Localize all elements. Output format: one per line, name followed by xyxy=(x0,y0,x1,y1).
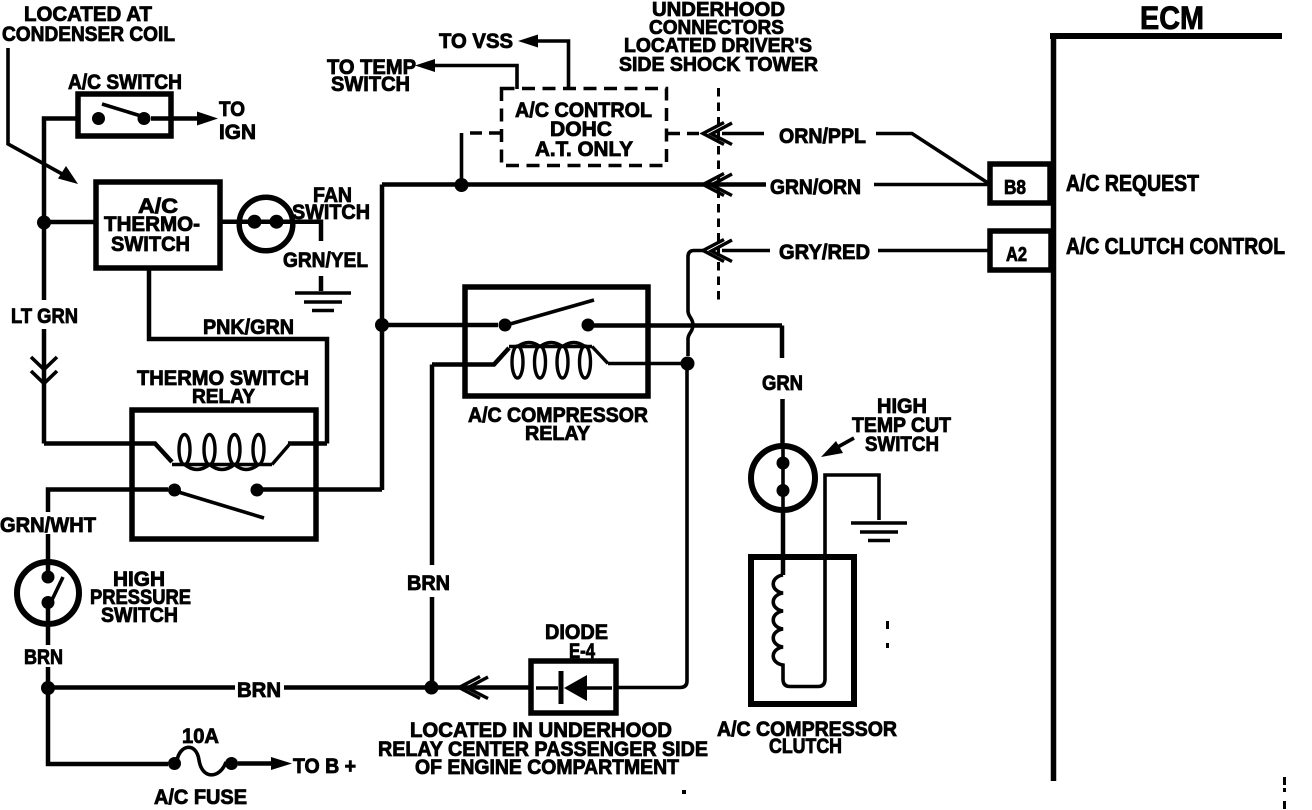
svg-text:OF ENGINE COMPARTMENT: OF ENGINE COMPARTMENT xyxy=(415,756,679,779)
ground fan switch xyxy=(295,293,351,311)
svg-text:BRN: BRN xyxy=(24,646,63,669)
fuse element 10A xyxy=(177,747,226,775)
switch blade compressor relay xyxy=(510,300,594,324)
svg-text:SWITCH: SWITCH xyxy=(292,201,370,224)
svg-text:A2: A2 xyxy=(1006,244,1027,266)
arrowhead pointer to thermo switch xyxy=(58,166,78,184)
coil thermo relay xyxy=(172,435,290,470)
relay K2 A/C compressor relay box xyxy=(465,287,648,396)
svg-text:RELAY: RELAY xyxy=(525,423,591,445)
thermo switch box xyxy=(96,182,220,268)
relay K1 thermo switch relay box xyxy=(132,410,316,539)
node junction GRY/RED to coil xyxy=(681,357,695,371)
svg-text:RELAY: RELAY xyxy=(192,386,256,408)
contact dot fuse right xyxy=(225,757,238,770)
high temp cut switch circle xyxy=(751,446,815,510)
wire BRN vertical from coil left xyxy=(430,365,435,685)
terminal A2 box xyxy=(990,231,1051,270)
wire GRY/RED left, down with crossover hop xyxy=(688,251,703,357)
dashed connector boundary line xyxy=(717,88,720,302)
chevron connector GRY/RED xyxy=(703,240,732,262)
coil compressor relay xyxy=(432,348,509,365)
svg-text:ORN/PPL: ORN/PPL xyxy=(779,125,866,148)
wire relay switch right xyxy=(263,487,382,492)
node junction at x44 y222 xyxy=(37,216,51,230)
wire GRN drop from relay switch xyxy=(780,326,785,446)
arrowhead to IGN xyxy=(197,112,218,126)
ECM top line xyxy=(1050,33,1282,39)
svg-text:BRN: BRN xyxy=(407,572,450,595)
dashed box A/C CONTROL DOHC A.T. ONLY xyxy=(502,89,667,166)
terminal B8 box xyxy=(990,164,1050,203)
svg-text:SWITCH: SWITCH xyxy=(865,433,939,456)
svg-text:SWITCH: SWITCH xyxy=(331,73,410,96)
svg-text:GRN: GRN xyxy=(762,372,803,395)
svg-text:TO: TO xyxy=(219,98,245,121)
contact dots A/C switch xyxy=(92,112,105,125)
svg-text:GRN/WHT: GRN/WHT xyxy=(0,514,96,537)
svg-text:A/C REQUEST: A/C REQUEST xyxy=(1066,170,1199,196)
wire BRN rail xyxy=(48,685,531,690)
svg-text:SWITCH: SWITCH xyxy=(101,604,178,627)
wire junction to thermo switch xyxy=(44,220,96,225)
clutch M1 A/C compressor clutch box xyxy=(751,557,854,704)
arrow pointer to high temp cut switch xyxy=(836,438,854,448)
diode D1 box xyxy=(531,661,616,713)
wire junction down to diode xyxy=(616,368,687,688)
svg-text:A/C FUSE: A/C FUSE xyxy=(154,786,247,809)
svg-text:SIDE SHOCK TOWER: SIDE SHOCK TOWER xyxy=(619,53,818,76)
contact dot fuse left xyxy=(168,757,181,770)
switch S1 A/C SWITCH box xyxy=(78,94,171,136)
wire GRN/ORN to B8 xyxy=(874,183,990,187)
wire to A/C fuse xyxy=(48,688,168,764)
svg-text:SWITCH: SWITCH xyxy=(111,233,190,256)
contact dots compressor relay switch xyxy=(499,319,512,332)
dashed tap right of A/C control box to ORN/PPL xyxy=(668,132,700,136)
high pressure switch circle xyxy=(17,562,79,624)
wire fuse to B+ xyxy=(238,761,272,766)
dashed tap left of A/C control box xyxy=(464,131,501,135)
artifact marks xyxy=(886,621,889,629)
svg-text:TO B +: TO B + xyxy=(293,755,356,778)
wire into A/C switch left xyxy=(44,119,78,444)
switch blade A/C switch xyxy=(102,104,141,116)
node junction on GRN/ORN line xyxy=(455,178,469,192)
contact dots high pressure switch xyxy=(42,571,55,584)
switch blade thermo relay xyxy=(180,493,264,519)
wire TO VSS xyxy=(536,41,569,89)
arrowhead TO VSS xyxy=(518,35,538,48)
ground clutch xyxy=(851,523,907,541)
coil A/C compressor clutch xyxy=(773,475,879,687)
chevron connector on BRN rail xyxy=(459,677,488,699)
wire A/C switch to IGN xyxy=(151,116,199,121)
wire HT switch to clutch xyxy=(781,510,786,575)
svg-text:PNK/GRN: PNK/GRN xyxy=(203,316,294,339)
wire GRY/RED right xyxy=(722,249,990,253)
node junction BRN rail xyxy=(41,681,55,695)
svg-text:TO VSS: TO VSS xyxy=(439,30,513,53)
arrowhead TO TEMP SWITCH xyxy=(415,59,435,72)
wire into relay coil left xyxy=(44,444,172,463)
wire coil right to junction xyxy=(608,362,682,366)
wire ORN/PPL xyxy=(722,132,764,136)
node junction at diode branch xyxy=(425,681,439,695)
wire ORN/PPL diagonal to B8 xyxy=(876,134,988,184)
svg-text:ECM: ECM xyxy=(1140,0,1204,36)
wire through high temp cut switch xyxy=(781,447,785,510)
node junction at compressor relay switch xyxy=(375,318,389,332)
svg-text:LT GRN: LT GRN xyxy=(11,305,78,328)
svg-text:BRN: BRN xyxy=(237,679,281,702)
wire pointer from condenser coil note xyxy=(8,48,64,175)
ECM boundary line xyxy=(1051,33,1057,781)
svg-text:10A: 10A xyxy=(182,725,219,748)
svg-text:A/C SWITCH: A/C SWITCH xyxy=(68,71,182,94)
svg-text:GRY/RED: GRY/RED xyxy=(779,241,870,264)
wire below HP switch xyxy=(46,603,51,688)
svg-text:B8: B8 xyxy=(1004,177,1026,199)
arrowhead to B+ xyxy=(271,757,292,770)
wire compressor relay switch right xyxy=(594,323,782,328)
wire GRN/ORN main xyxy=(382,182,766,187)
switch blade high pressure switch xyxy=(50,577,63,604)
diode D1 symbol xyxy=(536,671,612,704)
chevron connector LT GRN (down) xyxy=(31,357,57,384)
wire relay switch left GRN/WHT xyxy=(48,490,168,578)
contact dots thermo relay switch xyxy=(168,484,181,497)
contact dots fan switch xyxy=(248,215,262,229)
svg-text:GRN/ORN: GRN/ORN xyxy=(770,176,861,199)
wire thermo switch to fan switch xyxy=(220,222,321,291)
chevron connector ORN/PPL xyxy=(703,123,732,145)
svg-text:CONDENSER COIL: CONDENSER COIL xyxy=(2,23,175,46)
svg-text:IGN: IGN xyxy=(219,121,256,144)
svg-text:CLUTCH: CLUTCH xyxy=(769,735,842,758)
svg-text:A.T. ONLY: A.T. ONLY xyxy=(535,138,633,161)
wire TO TEMP SWITCH xyxy=(433,66,517,90)
wire GRN/ORN drop to relays xyxy=(380,185,385,491)
chevron connector GRN/ORN xyxy=(703,174,732,196)
wire PNK/GRN xyxy=(149,268,327,444)
wire coil right to PNK/GRN xyxy=(288,441,327,446)
fan switch circle xyxy=(239,197,293,251)
svg-text:A/C CLUTCH CONTROL: A/C CLUTCH CONTROL xyxy=(1066,233,1285,259)
wire into compressor relay switch xyxy=(382,323,498,328)
contact dots high temp cut switch xyxy=(777,457,790,470)
wire down to GRN/ORN line xyxy=(460,133,464,180)
svg-text:GRN/YEL: GRN/YEL xyxy=(283,249,368,272)
